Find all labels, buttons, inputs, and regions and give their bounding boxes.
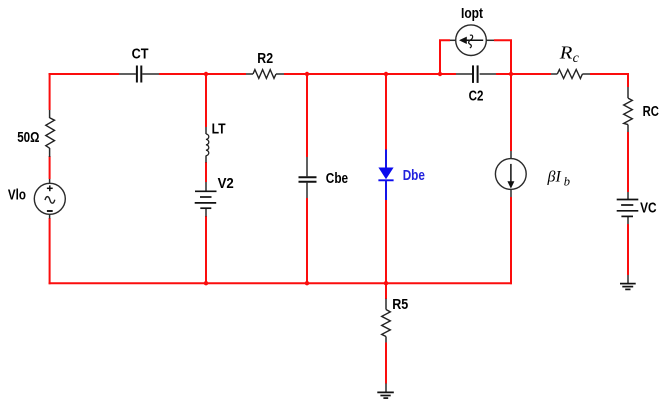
label R2 bbox=[257, 51, 273, 67]
current source Iopt bbox=[450, 25, 494, 56]
diode Dbe bbox=[378, 150, 393, 201]
inductor LT bbox=[206, 127, 209, 163]
wire R5 branch above R5 bbox=[385, 283, 387, 299]
wire below V2 to bottom rail bbox=[205, 216, 207, 283]
label RC bbox=[643, 104, 659, 120]
label beta-Ib bbox=[547, 169, 571, 189]
label Vlo bbox=[8, 188, 26, 204]
svg-text:CT: CT bbox=[132, 47, 149, 63]
resistor R2 bbox=[246, 70, 284, 79]
capacitor Cbe bbox=[299, 157, 317, 198]
wire top rail segment C2 to Rc bbox=[496, 73, 551, 75]
junction node at Iopt right bracket bbox=[509, 72, 513, 76]
svg-text:Iopt: Iopt bbox=[461, 6, 483, 22]
wire Cbe branch above Cbe bbox=[306, 74, 308, 157]
wire Cbe branch below Cbe bbox=[306, 198, 308, 283]
svg-text:VC: VC bbox=[640, 201, 657, 217]
junction node at LT bottom rail bbox=[204, 281, 208, 285]
wire top rail segment CT to R2 bbox=[159, 73, 246, 75]
wire below VC to ground bbox=[627, 224, 629, 275]
svg-text:Vlo: Vlo bbox=[8, 188, 26, 204]
ground below R5 bbox=[377, 383, 394, 398]
svg-text:c: c bbox=[573, 51, 580, 66]
wire top rail segment left (node in to CT) bbox=[49, 73, 119, 75]
svg-text:b: b bbox=[564, 174, 570, 188]
wire bottom rail bbox=[49, 282, 512, 284]
junction node at Dbe top bbox=[384, 72, 388, 76]
svg-text:R: R bbox=[559, 43, 573, 63]
wire top rail segment R2 to C2 bbox=[284, 73, 456, 75]
svg-text:C2: C2 bbox=[469, 89, 484, 105]
label Dbe bbox=[403, 168, 425, 184]
label VC bbox=[640, 201, 657, 217]
svg-text:βI: βI bbox=[547, 169, 562, 186]
resistor RC bbox=[624, 87, 633, 132]
wire LT branch above LT bbox=[205, 74, 207, 127]
ground below VC bbox=[620, 275, 636, 289]
label R5 bbox=[392, 297, 408, 313]
label C2 bbox=[469, 89, 484, 105]
label CT bbox=[132, 47, 149, 63]
battery VC bbox=[617, 192, 639, 224]
voltage source Vlo bbox=[34, 179, 65, 219]
junction node at Cbe bottom rail bbox=[305, 281, 309, 285]
svg-text:Cbe: Cbe bbox=[326, 171, 348, 187]
wire Iopt right bracket bbox=[494, 40, 511, 74]
junction node at Cbe top bbox=[305, 72, 309, 76]
svg-text:Dbe: Dbe bbox=[403, 168, 425, 184]
wire RC branch above RC bbox=[627, 73, 629, 87]
resistor R5 bbox=[382, 299, 391, 343]
wire left branch above 50 ohm bbox=[49, 73, 51, 110]
wire left branch below Vlo bbox=[49, 218, 51, 284]
wire beta-Ib branch below source bbox=[510, 197, 512, 284]
resistor 50 ohm bbox=[46, 110, 55, 157]
svg-text:RC: RC bbox=[643, 104, 659, 120]
label Cbe bbox=[326, 171, 348, 187]
wire Dbe branch above Dbe (red part) bbox=[385, 74, 387, 150]
capacitor C2 bbox=[456, 65, 496, 83]
wire beta-Ib branch above source bbox=[510, 74, 512, 151]
junction node at R5 top bbox=[384, 281, 388, 285]
wire top rail segment Rc to RC corner bbox=[590, 73, 629, 75]
value label 50 ohm bbox=[17, 130, 39, 146]
battery V2 bbox=[195, 182, 217, 217]
svg-text:R5: R5 bbox=[392, 297, 408, 313]
junction node at Iopt left bracket bbox=[438, 72, 442, 76]
label V2 bbox=[218, 176, 234, 192]
svg-text:LT: LT bbox=[212, 121, 226, 137]
label Iopt bbox=[461, 6, 483, 22]
label Rc bbox=[559, 43, 580, 66]
label LT bbox=[212, 121, 226, 137]
wire between RC and VC bbox=[627, 132, 629, 192]
wire Iopt left bracket bbox=[440, 40, 450, 74]
capacitor CT bbox=[119, 66, 159, 83]
resistor Rc bbox=[551, 70, 590, 79]
svg-text:V2: V2 bbox=[218, 176, 234, 192]
wire R5 branch below R5 to ground bbox=[385, 343, 387, 384]
svg-text:R2: R2 bbox=[257, 51, 273, 67]
wire between LT and V2 bbox=[205, 162, 207, 182]
current source beta-Ib bbox=[495, 151, 526, 197]
junction node at LT top bbox=[204, 72, 208, 76]
svg-text:50Ω: 50Ω bbox=[17, 130, 39, 146]
wire Dbe branch below Dbe (red part) bbox=[385, 200, 387, 283]
wire left branch between 50 ohm and Vlo bbox=[49, 156, 51, 179]
